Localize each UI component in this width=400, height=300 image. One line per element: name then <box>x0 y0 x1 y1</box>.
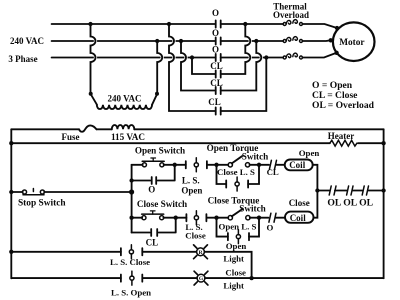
svg-text:115 VAC: 115 VAC <box>111 132 145 142</box>
node junction vertical <box>129 165 134 233</box>
svg-text:O: O <box>212 45 219 55</box>
svg-text:Light: Light <box>223 254 244 264</box>
label 240 VAC (incoming) <box>10 36 44 46</box>
thermal overload OL-C <box>283 53 302 59</box>
wire open coil to OL rail <box>313 165 318 191</box>
svg-text:Open Switch: Open Switch <box>135 146 185 156</box>
svg-text:Switch: Switch <box>239 204 266 214</box>
limit switch L.S. Open (open row) <box>175 158 215 196</box>
svg-text:Switch: Switch <box>242 152 269 162</box>
contact O (close coil row) <box>259 213 285 232</box>
heater element <box>330 140 357 146</box>
thermal overload OL-B <box>283 37 302 43</box>
svg-text:Fuse: Fuse <box>62 132 80 142</box>
svg-text:Close: Close <box>289 198 310 208</box>
contact O2 <box>212 28 221 45</box>
svg-text:Motor: Motor <box>339 38 364 48</box>
contact CL (open coil row) <box>259 160 285 177</box>
svg-text:O: O <box>212 8 219 18</box>
svg-text:G: G <box>199 276 204 282</box>
svg-text:Open L. S: Open L. S <box>219 222 257 232</box>
contact O1 <box>212 8 221 27</box>
contact O (seal-in, open) <box>132 165 175 195</box>
legend <box>312 80 375 111</box>
label Heater <box>328 131 354 141</box>
limit switch L.S. Close (lamp row 1) <box>9 245 196 267</box>
stop switch (NC pushbutton) <box>9 189 131 209</box>
contact CL (seal-in, close) <box>132 218 176 248</box>
svg-text:CL: CL <box>210 78 223 88</box>
svg-text:3 Phase: 3 Phase <box>8 54 37 64</box>
close switch (NO pushbutton) <box>132 199 188 220</box>
wire left rail <box>10 129 12 278</box>
label Thermal Overload <box>273 1 309 20</box>
svg-text:Coil: Coil <box>289 160 306 170</box>
svg-text:Coil: Coil <box>290 213 307 223</box>
svg-text:L. S. Close: L. S. Close <box>110 257 150 267</box>
svg-text:Light: Light <box>223 280 244 290</box>
limit switch Open L.S (branch) <box>217 218 260 244</box>
wire lamp row 2 to right rail <box>205 277 384 279</box>
limit switch L.S. Open (lamp row 2) <box>11 271 197 297</box>
svg-text:CL: CL <box>208 97 221 107</box>
svg-text:Overload: Overload <box>273 10 309 20</box>
wire CL1 row (phase L3 to L1) <box>190 22 250 74</box>
svg-text:O: O <box>212 28 219 38</box>
svg-text:240 VAC: 240 VAC <box>10 36 44 46</box>
torque switch (close) <box>208 196 266 220</box>
torque switch (open) <box>207 143 269 167</box>
svg-text:OL OL OL: OL OL OL <box>327 198 373 209</box>
label 115 VAC <box>111 132 145 142</box>
contact CL2 <box>210 78 223 94</box>
lamp R (open light) <box>194 241 247 264</box>
close coil <box>285 198 314 223</box>
lamp G (close light) <box>194 268 246 291</box>
inductor 115 VAC secondary <box>112 125 134 129</box>
wire phase L3 <box>52 53 337 58</box>
open coil <box>285 148 320 170</box>
svg-text:OL = Overload: OL = Overload <box>312 100 375 111</box>
label 3 Phase <box>8 54 37 64</box>
thermal overload OL-A <box>283 20 302 26</box>
motor M <box>329 22 375 61</box>
svg-text:Stop Switch: Stop Switch <box>18 198 66 208</box>
svg-text:Open: Open <box>299 148 320 158</box>
contact O3 <box>212 45 221 62</box>
contact CL3 <box>208 97 221 114</box>
limit switch Close L.S (branch) <box>217 165 260 191</box>
svg-text:Close: Close <box>225 268 246 278</box>
wire right rail <box>383 129 385 278</box>
heater rung wire <box>9 141 386 145</box>
svg-text:Close Switch: Close Switch <box>137 199 187 209</box>
svg-text:CL: CL <box>210 61 223 71</box>
svg-text:Open: Open <box>181 186 202 196</box>
wire top rail <box>11 128 383 130</box>
svg-text:L. S.: L. S. <box>182 176 200 186</box>
wire phase L1 <box>52 24 337 28</box>
limit switch L.S. Close (close row) <box>176 211 215 241</box>
wire lamp row 1 to row 2 <box>205 252 254 280</box>
svg-text:CL: CL <box>267 167 279 177</box>
OL contacts rung <box>315 186 386 209</box>
svg-text:L. S. Open: L. S. Open <box>111 287 151 297</box>
wire phase L2 <box>52 39 331 42</box>
wire close coil to OL rail <box>314 191 318 218</box>
svg-text:O: O <box>266 223 273 233</box>
transformer T1 primary <box>88 22 162 109</box>
svg-text:Heater: Heater <box>328 131 354 141</box>
svg-text:240 VAC: 240 VAC <box>108 93 142 103</box>
wire CL2 row (phase L2 to L2) <box>179 39 261 91</box>
svg-text:O: O <box>148 185 155 195</box>
label Fuse <box>62 132 80 142</box>
open switch (NO pushbutton) <box>132 146 186 167</box>
svg-text:Close L. S: Close L. S <box>217 167 255 177</box>
fuse F1 <box>79 125 97 131</box>
svg-text:Close: Close <box>185 231 206 241</box>
contact CL1 <box>210 61 223 77</box>
svg-text:Open: Open <box>226 241 247 251</box>
svg-text:CL: CL <box>146 238 159 248</box>
wire CL3 row (phase L1 to L3) <box>167 22 269 111</box>
